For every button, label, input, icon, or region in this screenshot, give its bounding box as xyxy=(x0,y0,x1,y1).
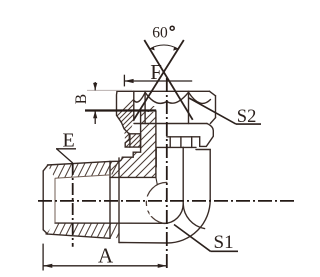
S2 label with leader xyxy=(189,98,261,124)
nested corner: arc gamma xyxy=(183,204,204,229)
nut bottom edge xyxy=(134,123,207,125)
chamfer bottom-left xyxy=(43,230,47,234)
hatch: washer under nut skirt xyxy=(125,120,150,160)
chamfer arc right face xyxy=(189,92,211,103)
hex corner line right xyxy=(188,91,190,123)
60 deg cone X lines xyxy=(134,40,193,120)
outer corner arc beta xyxy=(167,200,210,243)
E gauge line vertical dash-dot xyxy=(72,163,74,247)
hatch: body section xyxy=(95,82,175,250)
hatch: vertical stud wall top (sectioned) xyxy=(130,90,170,170)
washer outline xyxy=(130,134,141,147)
hatch: top thread band of male stud xyxy=(44,160,126,180)
nut left outer profile xyxy=(117,91,131,147)
bore arc half circle at bend center xyxy=(146,182,167,223)
svg-text:F: F xyxy=(150,60,162,84)
chamfer arc left stub xyxy=(134,93,145,103)
chamfer arc middle face right part xyxy=(167,92,189,103)
angle arc with arrows xyxy=(150,45,178,49)
vertical port bore wall left xyxy=(155,111,157,177)
male stud left end face xyxy=(42,171,44,230)
svg-text:E: E xyxy=(63,129,75,151)
bore wall stub below hatch xyxy=(156,177,157,184)
svg-text:S1: S1 xyxy=(214,232,234,253)
svg-text:A: A xyxy=(98,244,114,268)
vertical centerline xyxy=(166,78,168,271)
body right shoulder xyxy=(196,149,210,151)
thread end vertical xyxy=(109,161,111,238)
svg-text:S2: S2 xyxy=(237,107,257,127)
body top stepped profile xyxy=(110,112,141,162)
nut top face xyxy=(117,90,210,92)
chamfer top-left xyxy=(43,165,48,171)
thread start vertical xyxy=(54,178,56,223)
bore top line (horizontal port) xyxy=(110,176,156,178)
S1 label with leader xyxy=(174,225,238,252)
hex front face vertical xyxy=(118,158,120,243)
nut skirt right xyxy=(200,124,214,147)
B dimension xyxy=(87,89,132,91)
crest line top (tapered) xyxy=(48,161,111,165)
nut right chamfer bottom xyxy=(210,118,215,124)
body bore wall below xyxy=(155,147,157,167)
nested corner vertical xyxy=(182,147,184,204)
nut right chamfer top xyxy=(210,91,216,96)
nut right edge xyxy=(215,96,217,118)
white breaks over bore arc (faded spots in original) xyxy=(145,197,154,217)
hatch: nut wall (left, sectioned) xyxy=(108,88,145,180)
hex corner line left xyxy=(144,91,146,123)
nut inner wall left xyxy=(133,91,135,120)
sleeve lines below nut (right external) xyxy=(167,136,200,138)
root line top xyxy=(55,175,110,178)
hatch: bottom thread band of male stud xyxy=(44,220,126,240)
horizontal centerline xyxy=(38,200,295,202)
chamfer arc middle face left part xyxy=(145,92,167,103)
hex bottom edge xyxy=(119,242,167,245)
svg-text:60: 60 xyxy=(152,24,168,41)
A dimension xyxy=(43,244,167,271)
nested corner: arc alpha xyxy=(164,204,183,223)
root line bottom xyxy=(55,222,164,224)
svg-text:B: B xyxy=(73,94,90,104)
crest line bottom (tapered) xyxy=(46,234,110,238)
body right edge xyxy=(209,150,211,201)
